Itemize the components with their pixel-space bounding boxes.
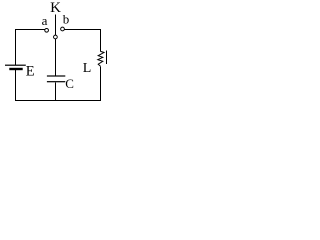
inductor L core (straight bar) <box>105 51 107 65</box>
capacitor C upper plate <box>47 75 65 76</box>
switch K pole (small circle) <box>54 35 58 39</box>
svg-text:C: C <box>65 76 74 91</box>
svg-text:a: a <box>42 13 48 28</box>
svg-text:E: E <box>26 64 35 80</box>
wire: bottom horizontal <box>15 100 101 102</box>
battery E long plate (positive) <box>5 65 26 66</box>
capacitor C lower plate <box>47 81 65 82</box>
wire: middle vertical from switch pole down to capacitor <box>55 39 57 76</box>
wire: right vertical from inductor down to bottom corner <box>100 66 102 101</box>
svg-text:K: K <box>50 0 61 16</box>
contact b (switch throw, small circle) <box>61 27 65 31</box>
wire: top-right horizontal from contact b to right corner <box>64 29 101 31</box>
inductor L coil (zigzag winding) <box>98 51 104 66</box>
wire: left vertical from battery down to bottom corner <box>15 70 17 101</box>
svg-text:b: b <box>63 12 70 27</box>
wire: left vertical from top corner down to battery <box>15 30 17 65</box>
wire: middle vertical from capacitor down to bottom wire <box>55 82 57 101</box>
battery E short thick plate (negative) <box>9 68 22 70</box>
switch K lever (vertical arm) <box>55 14 57 35</box>
wire: right vertical from top corner down to inductor <box>100 30 102 52</box>
contact a (switch throw, small circle) <box>45 28 49 32</box>
svg-text:L: L <box>83 61 92 76</box>
wire: top-left horizontal from corner to contact a <box>15 29 45 31</box>
